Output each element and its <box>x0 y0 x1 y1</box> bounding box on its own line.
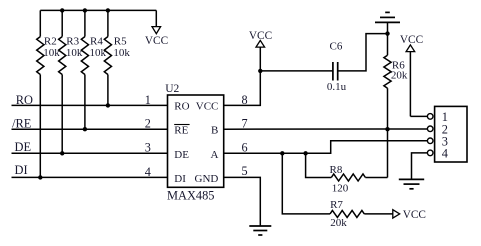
svg-text:0.1u: 0.1u <box>327 81 347 93</box>
svg-text:B: B <box>211 125 218 137</box>
svg-text:MAX485: MAX485 <box>167 188 215 202</box>
svg-text:4: 4 <box>442 147 448 161</box>
IC U2 MAX485 <box>165 83 224 203</box>
node RO <box>12 93 168 107</box>
svg-text:5: 5 <box>242 164 248 178</box>
node /RE <box>12 117 168 131</box>
svg-text:DI: DI <box>174 173 186 185</box>
svg-text:RO: RO <box>16 93 33 107</box>
junction <box>385 127 389 131</box>
connector J1 <box>427 106 467 162</box>
svg-text:U2: U2 <box>165 83 179 95</box>
wire <box>40 9 156 11</box>
svg-text:GND: GND <box>195 173 219 185</box>
junction <box>83 127 87 131</box>
svg-text:C6: C6 <box>330 41 343 53</box>
resistor R7 <box>330 199 364 229</box>
resistor R2 <box>37 10 61 177</box>
ground <box>249 226 271 235</box>
junction <box>83 8 87 12</box>
wire <box>282 153 330 214</box>
wire <box>410 115 427 117</box>
svg-text:VCC: VCC <box>196 101 219 113</box>
svg-text:10k: 10k <box>66 47 83 59</box>
wire <box>224 177 261 226</box>
svg-text:R5: R5 <box>114 35 127 47</box>
svg-text:VCC: VCC <box>145 35 168 47</box>
svg-text:DE: DE <box>174 149 189 161</box>
wire <box>412 153 428 180</box>
power VCC <box>145 10 168 47</box>
wire <box>224 71 261 106</box>
svg-text:20k: 20k <box>330 217 347 229</box>
junction <box>280 151 284 155</box>
power VCC <box>393 209 426 221</box>
junction <box>106 8 110 12</box>
svg-text:R8: R8 <box>330 164 343 176</box>
wire <box>364 213 393 215</box>
resistor R8 <box>330 164 366 194</box>
svg-text:DI: DI <box>15 163 28 177</box>
svg-text:4: 4 <box>145 165 151 179</box>
wire <box>338 34 388 71</box>
junction <box>385 31 389 35</box>
ground <box>375 12 400 33</box>
svg-text:R2: R2 <box>44 35 57 47</box>
power VCC <box>400 34 423 116</box>
svg-text:10k: 10k <box>113 47 130 59</box>
svg-text:VCC: VCC <box>403 209 426 221</box>
svg-text:3: 3 <box>145 141 151 155</box>
junction <box>303 151 307 155</box>
svg-text:10k: 10k <box>43 47 60 59</box>
wire <box>224 141 428 154</box>
junction <box>60 151 64 155</box>
capacitor C6 <box>327 41 347 93</box>
svg-text:RE: RE <box>174 125 188 137</box>
svg-text:RO: RO <box>174 101 189 113</box>
wire <box>306 153 332 177</box>
svg-text:120: 120 <box>332 183 349 195</box>
wire <box>387 129 389 177</box>
junction <box>258 69 262 73</box>
node DE <box>12 140 168 154</box>
power VCC <box>249 30 272 71</box>
svg-text:R3: R3 <box>66 35 79 47</box>
resistor R6 <box>384 34 408 130</box>
resistor R4 <box>81 10 106 129</box>
resistor R5 <box>104 10 130 105</box>
junction <box>60 8 64 12</box>
svg-text:R4: R4 <box>90 35 103 47</box>
svg-text:1: 1 <box>145 93 151 107</box>
junction <box>38 175 42 179</box>
wire <box>260 70 333 72</box>
svg-text:10k: 10k <box>90 47 107 59</box>
resistor R3 <box>59 10 83 153</box>
junction <box>106 103 110 107</box>
svg-text:2: 2 <box>145 117 151 131</box>
svg-text:/RE: /RE <box>12 117 31 131</box>
wire <box>224 128 428 130</box>
node DI <box>12 163 168 178</box>
svg-text:R7: R7 <box>330 199 343 211</box>
svg-text:VCC: VCC <box>400 34 423 46</box>
svg-text:DE: DE <box>15 140 32 154</box>
svg-text:A: A <box>210 149 218 161</box>
ground <box>399 179 424 188</box>
svg-text:VCC: VCC <box>249 30 272 42</box>
wire <box>365 177 387 179</box>
svg-text:20k: 20k <box>391 70 408 82</box>
